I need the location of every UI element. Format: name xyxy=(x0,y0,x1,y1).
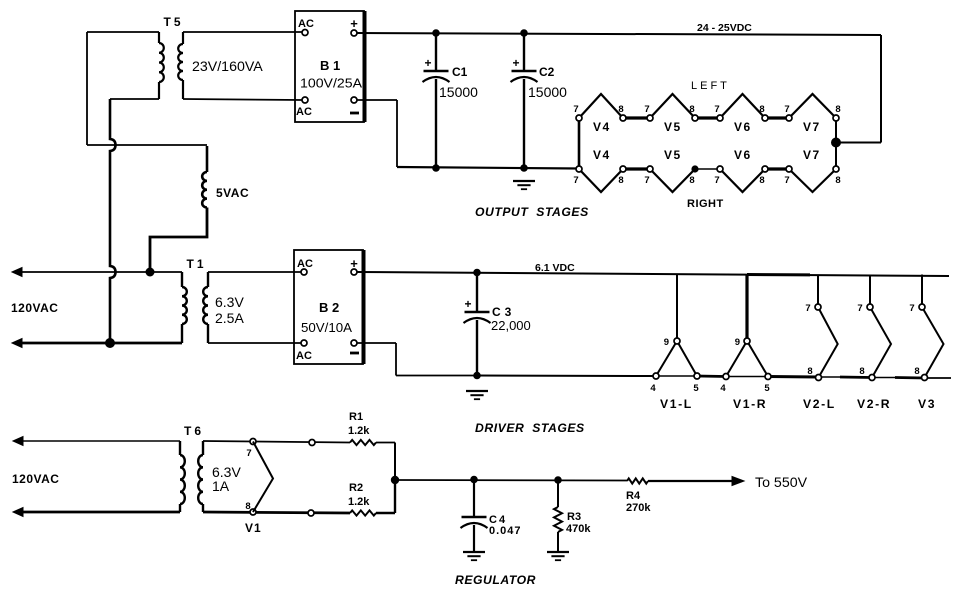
svg-text:1.2k: 1.2k xyxy=(348,496,370,508)
svg-text:B 2: B 2 xyxy=(319,300,339,315)
svg-text:V2-L: V2-L xyxy=(803,397,836,411)
svg-text:1.2k: 1.2k xyxy=(348,425,370,437)
svg-text:+: + xyxy=(350,16,358,31)
svg-text:120VAC: 120VAC xyxy=(12,472,59,486)
svg-text:V2-R: V2-R xyxy=(857,397,891,411)
svg-text:15000: 15000 xyxy=(439,84,478,100)
svg-text:V3: V3 xyxy=(918,397,936,411)
svg-text:C2: C2 xyxy=(539,65,555,79)
svg-text:5: 5 xyxy=(693,383,699,394)
svg-text:7: 7 xyxy=(573,104,578,115)
svg-text:V7: V7 xyxy=(803,148,821,162)
svg-text:100V/25A: 100V/25A xyxy=(300,76,362,91)
svg-text:AC: AC xyxy=(297,258,313,270)
svg-text:8: 8 xyxy=(618,175,623,186)
svg-text:R1: R1 xyxy=(349,411,363,423)
svg-text:AC: AC xyxy=(298,18,314,30)
svg-text:8: 8 xyxy=(245,501,250,512)
svg-text:23V/160VA: 23V/160VA xyxy=(192,59,263,75)
svg-text:7: 7 xyxy=(246,448,251,459)
svg-text:V5: V5 xyxy=(664,120,682,134)
svg-text:7: 7 xyxy=(714,104,719,115)
svg-text:OUTPUT STAGES: OUTPUT STAGES xyxy=(475,205,589,219)
svg-text:7: 7 xyxy=(784,175,789,186)
svg-text:V4: V4 xyxy=(593,120,611,134)
svg-text:AC: AC xyxy=(296,106,312,118)
svg-text:C1: C1 xyxy=(452,65,468,79)
svg-text:7: 7 xyxy=(714,175,719,186)
svg-text:V1-L: V1-L xyxy=(660,397,693,411)
svg-text:C3: C3 xyxy=(492,305,515,319)
svg-text:+: + xyxy=(424,56,431,70)
svg-text:V6: V6 xyxy=(734,148,752,162)
svg-text:+: + xyxy=(350,256,358,271)
svg-text:To 550V: To 550V xyxy=(755,475,808,491)
svg-text:V6: V6 xyxy=(734,120,752,134)
svg-text:1A: 1A xyxy=(212,478,230,494)
svg-text:8: 8 xyxy=(914,366,919,377)
svg-text:7: 7 xyxy=(573,175,578,186)
svg-text:6.3V: 6.3V xyxy=(215,294,244,310)
svg-text:V1: V1 xyxy=(245,521,262,535)
svg-text:50V/10A: 50V/10A xyxy=(301,320,352,335)
svg-text:270k: 270k xyxy=(626,502,651,514)
svg-text:8: 8 xyxy=(835,104,840,115)
svg-text:0.047: 0.047 xyxy=(489,525,522,537)
svg-text:AC: AC xyxy=(296,350,312,362)
svg-text:7: 7 xyxy=(909,303,914,314)
svg-text:470k: 470k xyxy=(566,523,591,535)
svg-text:R3: R3 xyxy=(567,511,581,523)
svg-text:R2: R2 xyxy=(349,482,363,494)
svg-text:8: 8 xyxy=(807,366,812,377)
svg-text:+: + xyxy=(512,56,519,70)
svg-text:120VAC: 120VAC xyxy=(11,301,58,315)
svg-text:7: 7 xyxy=(644,104,649,115)
svg-text:T6: T6 xyxy=(184,424,204,438)
svg-text:8: 8 xyxy=(759,104,764,115)
svg-text:V1-R: V1-R xyxy=(733,397,767,411)
svg-text:V5: V5 xyxy=(664,148,682,162)
svg-text:15000: 15000 xyxy=(528,84,567,100)
svg-text:5VAC: 5VAC xyxy=(216,186,249,200)
svg-text:7: 7 xyxy=(644,175,649,186)
svg-text:8: 8 xyxy=(689,104,694,115)
svg-text:4: 4 xyxy=(650,383,656,394)
svg-text:V4: V4 xyxy=(593,148,611,162)
svg-text:7: 7 xyxy=(857,303,862,314)
svg-text:8: 8 xyxy=(859,366,864,377)
svg-text:9: 9 xyxy=(664,337,669,348)
svg-text:8: 8 xyxy=(759,175,764,186)
svg-text:2.5A: 2.5A xyxy=(215,310,244,326)
svg-text:LEFT: LEFT xyxy=(691,80,730,92)
svg-text:24 - 25VDC: 24 - 25VDC xyxy=(697,22,752,34)
svg-text:8: 8 xyxy=(618,104,623,115)
svg-text:8: 8 xyxy=(689,175,694,186)
svg-text:DRIVER STAGES: DRIVER STAGES xyxy=(475,421,585,435)
svg-text:4: 4 xyxy=(720,383,726,394)
svg-text:7: 7 xyxy=(784,104,789,115)
svg-text:8: 8 xyxy=(835,175,840,186)
svg-text:R4: R4 xyxy=(626,490,641,502)
svg-text:T5: T5 xyxy=(164,15,184,29)
svg-text:REGULATOR: REGULATOR xyxy=(455,573,536,587)
svg-text:+: + xyxy=(464,297,471,311)
svg-text:9: 9 xyxy=(735,337,740,348)
svg-text:22,000: 22,000 xyxy=(491,318,531,333)
svg-text:RIGHT: RIGHT xyxy=(687,198,724,210)
svg-text:7: 7 xyxy=(805,303,810,314)
svg-text:5: 5 xyxy=(764,383,770,394)
svg-text:T1: T1 xyxy=(187,257,207,271)
svg-text:B 1: B 1 xyxy=(320,58,340,73)
svg-text:6.1 VDC: 6.1 VDC xyxy=(535,262,575,274)
svg-text:V7: V7 xyxy=(803,120,821,134)
